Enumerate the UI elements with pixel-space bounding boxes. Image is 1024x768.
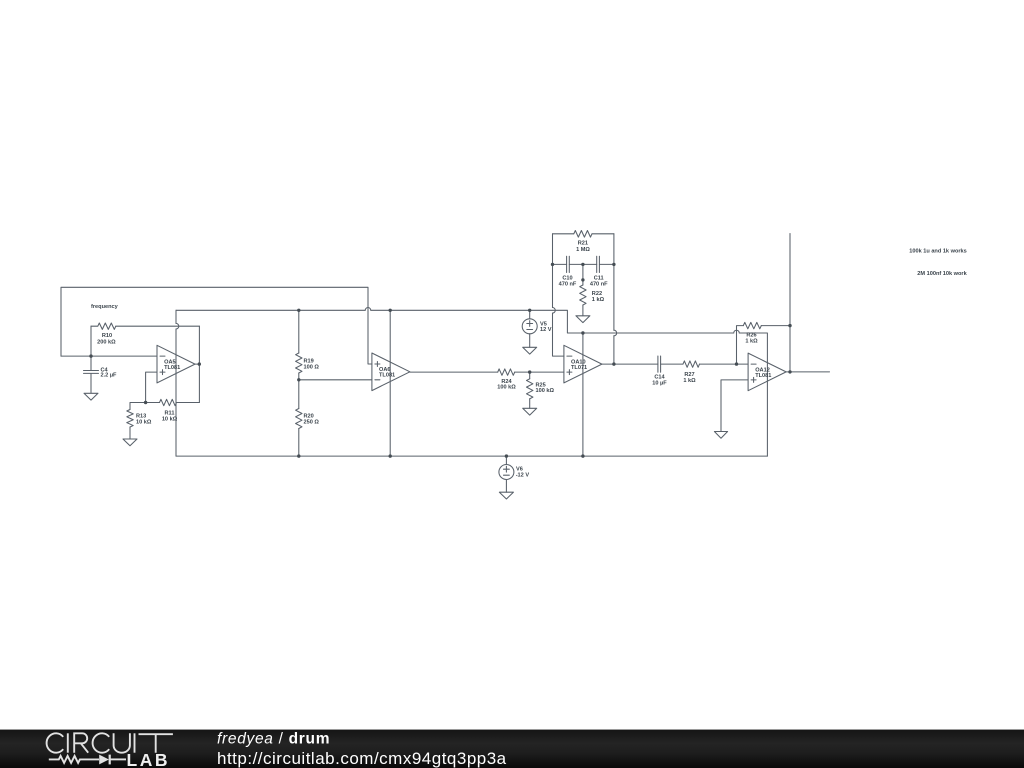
wire V6 leads xyxy=(505,456,507,492)
capacitor C4 xyxy=(84,356,99,393)
svg-text:TL081: TL081 xyxy=(164,365,180,371)
wire R10 left vertical xyxy=(90,326,92,356)
wire feedback-block left vertical with hop, to OA10 minus xyxy=(553,234,564,356)
op-amp OA10 xyxy=(564,345,602,383)
resistor R22 xyxy=(580,285,586,305)
wire C10 C11 row xyxy=(553,263,614,265)
wire OA5 plus input xyxy=(146,372,157,402)
wire R13 stub xyxy=(130,403,146,440)
svg-text:R11: R11 xyxy=(165,410,175,416)
wire OA6 minus input xyxy=(299,379,372,381)
svg-text:http://circuitlab.com/cmx94gtq: http://circuitlab.com/cmx94gtq3pp3a xyxy=(217,749,507,768)
svg-text:200 kΩ: 200 kΩ xyxy=(97,339,116,345)
svg-text:TL071: TL071 xyxy=(571,365,587,371)
voltage source V6 xyxy=(499,465,514,480)
svg-text:R26: R26 xyxy=(746,333,756,339)
resistor R24 xyxy=(498,369,515,375)
wire R19 vertical xyxy=(298,310,300,380)
wire bias rail horizontal with hop over x=368 vertical xyxy=(176,308,767,457)
wire R21 row leads xyxy=(553,233,614,235)
wire OA5 output stub xyxy=(195,363,199,365)
svg-text:R19: R19 xyxy=(304,359,314,365)
wire long vertical to OA12 output xyxy=(789,234,791,372)
resistor R26 xyxy=(743,322,761,328)
svg-text:470 nF: 470 nF xyxy=(590,281,608,287)
svg-text:V6: V6 xyxy=(516,466,523,472)
wire R20 vertical xyxy=(298,380,300,456)
svg-text:250 Ω: 250 Ω xyxy=(304,420,320,426)
ground R22 xyxy=(576,316,590,323)
svg-text:10 kΩ: 10 kΩ xyxy=(162,416,178,422)
svg-text:-12 V: -12 V xyxy=(516,473,530,479)
svg-text:12 V: 12 V xyxy=(540,327,552,333)
svg-text:100 kΩ: 100 kΩ xyxy=(536,388,555,394)
wire OA12 plus to ground xyxy=(721,380,748,432)
capacitor C14 xyxy=(658,356,661,372)
svg-text:1 kΩ: 1 kΩ xyxy=(745,339,758,345)
ground OA12 plus xyxy=(714,432,727,439)
wire OA10 output row to OA12 minus xyxy=(602,363,748,365)
ground C4 xyxy=(84,393,98,400)
svg-text:TL081: TL081 xyxy=(755,373,771,379)
wire R11 leads xyxy=(146,402,200,404)
op-amp OA12 xyxy=(748,353,786,391)
capacitor C10 xyxy=(567,256,570,272)
svg-text:100 kΩ: 100 kΩ xyxy=(497,385,516,391)
junction dots xyxy=(89,263,791,458)
ground R25 xyxy=(523,408,537,415)
resistor R19 xyxy=(296,353,302,373)
wire R26 right lead xyxy=(761,325,790,327)
wire R10 to OA5 output node xyxy=(116,325,200,327)
wire vertical x=583 to bus xyxy=(582,333,584,456)
svg-text:10 kΩ: 10 kΩ xyxy=(136,419,152,425)
svg-text:1 kΩ: 1 kΩ xyxy=(683,378,696,384)
wire OA12 minus node vertical to R26 xyxy=(737,326,744,365)
wire top feedback from OA5 minus node to OA6 plus input xyxy=(61,287,372,364)
CircuitLab logo xyxy=(0,730,200,768)
ground V5 xyxy=(523,347,537,354)
resistor R25 xyxy=(527,379,533,399)
op-amp OA5 xyxy=(157,345,195,383)
resistor R11 xyxy=(160,399,177,405)
wire R22 leads xyxy=(582,264,584,315)
wire OA5 feedback vertical xyxy=(198,326,200,402)
svg-text:2.2 µF: 2.2 µF xyxy=(101,372,118,378)
svg-text:470 nF: 470 nF xyxy=(559,281,577,287)
svg-text:10 µF: 10 µF xyxy=(652,381,667,387)
op-amp OA6 xyxy=(372,353,410,391)
svg-text:R10: R10 xyxy=(102,333,112,339)
wire vertical x=390 to bus xyxy=(389,310,391,456)
svg-text:1 MΩ: 1 MΩ xyxy=(576,247,590,253)
resistor R27 xyxy=(683,361,700,367)
svg-text:fredyea / drum: fredyea / drum xyxy=(217,731,330,748)
svg-text:R21: R21 xyxy=(578,241,588,247)
ground R13 xyxy=(123,439,137,446)
resistor R13 xyxy=(127,410,133,428)
resistor R21 xyxy=(574,231,592,238)
voltage source V5 xyxy=(522,319,537,334)
svg-text:TL081: TL081 xyxy=(379,373,395,379)
svg-text:frequency: frequency xyxy=(91,304,119,310)
svg-text:LAB: LAB xyxy=(127,750,170,768)
resistor R10 xyxy=(91,323,116,329)
wire OA12 output xyxy=(786,371,829,373)
capacitor C11 xyxy=(597,256,600,272)
wire left rail vertical with hop over R10 wire xyxy=(176,310,179,456)
resistor R20 xyxy=(296,409,302,429)
wire OA5 minus input xyxy=(61,355,157,357)
wire V5 leads xyxy=(529,310,531,347)
wire bottom bus xyxy=(176,455,767,457)
wire feedback-block right vertical with hop over y=333 xyxy=(614,234,617,364)
wire R25 leads xyxy=(529,372,531,408)
svg-text:100k 1u and 1k works: 100k 1u and 1k works xyxy=(909,249,967,255)
svg-text:2M 100nf 10k work: 2M 100nf 10k work xyxy=(917,271,967,277)
svg-text:1 kΩ: 1 kΩ xyxy=(592,297,605,303)
ground V6 xyxy=(499,492,513,499)
wire OA6 output to R24 to OA10 plus xyxy=(410,371,564,373)
svg-text:100 Ω: 100 Ω xyxy=(304,365,320,371)
